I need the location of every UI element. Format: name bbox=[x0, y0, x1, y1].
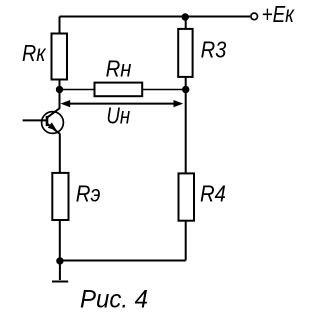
resistor R3 bbox=[178, 29, 192, 77]
junction node Rн/R3/R4 bbox=[182, 86, 189, 93]
svg-text:Rк: Rк bbox=[22, 40, 46, 66]
resistor Rэ bbox=[52, 173, 68, 220]
terminal +Ek (open circle) bbox=[251, 13, 258, 20]
wire Rк to collector bbox=[59, 81, 61, 109]
resistor Rн bbox=[95, 83, 143, 97]
wire node to R4 bbox=[185, 90, 187, 174]
wire R4 to bottom rail bbox=[185, 222, 187, 261]
junction node bottom / ground bbox=[56, 257, 63, 264]
svg-text:Рис. 4: Рис. 4 bbox=[80, 286, 148, 314]
wire R3 to node bbox=[185, 78, 187, 91]
wire top rail bbox=[60, 16, 251, 18]
junction node top rail / R3 bbox=[182, 13, 189, 20]
wire Rэ to bottom rail bbox=[59, 221, 61, 261]
resistor Rк bbox=[52, 34, 68, 80]
wire rail to Rк bbox=[59, 17, 61, 34]
wire bottom rail bbox=[60, 260, 186, 262]
svg-text:R3: R3 bbox=[201, 37, 227, 63]
wire Rн to right node bbox=[143, 89, 186, 91]
svg-text:Rн: Rн bbox=[106, 56, 132, 82]
junction node collector/Rн bbox=[56, 86, 63, 93]
svg-text:Rэ: Rэ bbox=[76, 180, 101, 206]
svg-text:+Eк: +Eк bbox=[262, 1, 295, 27]
svg-text:Uн: Uн bbox=[106, 102, 130, 128]
ground bbox=[52, 261, 68, 282]
transistor VT1 bbox=[42, 108, 64, 134]
wire node to Rн bbox=[60, 89, 95, 91]
wire base lead bbox=[23, 119, 47, 121]
svg-text:R4: R4 bbox=[200, 180, 226, 206]
wire rail to R3 bbox=[185, 17, 187, 29]
resistor R4 bbox=[179, 173, 195, 220]
dimension arrow Uн bbox=[61, 100, 184, 107]
wire emitter to Rэ bbox=[59, 134, 61, 173]
